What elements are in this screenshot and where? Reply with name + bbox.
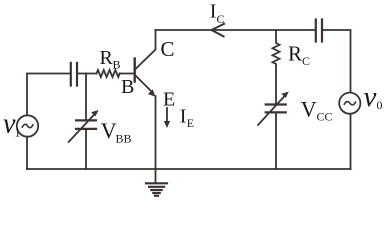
resistor R_B — [97, 70, 120, 77]
svg-text:V: V — [101, 118, 117, 143]
wire capacitor to v0 branch — [322, 30, 351, 93]
capacitor C1 (input coupling) — [70, 63, 72, 86]
wire base (left loop top) — [27, 74, 70, 116]
svg-text:R: R — [288, 42, 302, 66]
wire emitter to ground — [155, 96, 157, 183]
svg-text:V: V — [301, 96, 317, 121]
svg-text:B: B — [121, 76, 134, 98]
wire v1 to bottom — [26, 137, 28, 169]
svg-text:C: C — [302, 54, 310, 68]
svg-text:v: v — [364, 81, 377, 113]
svg-text:1: 1 — [15, 126, 21, 140]
svg-text:R: R — [100, 47, 114, 69]
wire bottom rail — [27, 168, 351, 170]
current arrow I_E — [166, 108, 168, 123]
wire capacitor to base bar — [77, 73, 97, 75]
svg-text:E: E — [163, 89, 175, 111]
current arrow I_C — [212, 24, 225, 37]
svg-text:C: C — [161, 37, 175, 61]
wire top (collector to output capacitor) — [156, 29, 316, 31]
capacitor C2 (output coupling) — [315, 20, 317, 42]
wire V_CC to bottom — [275, 113, 277, 169]
svg-text:E: E — [187, 116, 194, 130]
svg-text:B: B — [113, 57, 121, 71]
resistor R_C — [273, 30, 280, 104]
svg-text:C: C — [217, 12, 225, 26]
ground — [146, 183, 167, 196]
svg-text:BB: BB — [116, 131, 132, 145]
wire V_BB to bottom — [85, 130, 87, 169]
svg-text:I: I — [180, 106, 187, 128]
source v0 — [339, 93, 360, 114]
source V_CC (variable symbol) — [266, 103, 286, 105]
svg-text:0: 0 — [377, 98, 383, 112]
source V_BB (variable symbol) — [76, 119, 96, 121]
transistor Q1 — [133, 59, 135, 82]
wire V_BB branch — [85, 74, 87, 120]
svg-text:CC: CC — [317, 110, 333, 124]
svg-text:I: I — [210, 1, 217, 23]
wire v0 to bottom — [350, 114, 352, 169]
source v1 — [17, 115, 38, 136]
